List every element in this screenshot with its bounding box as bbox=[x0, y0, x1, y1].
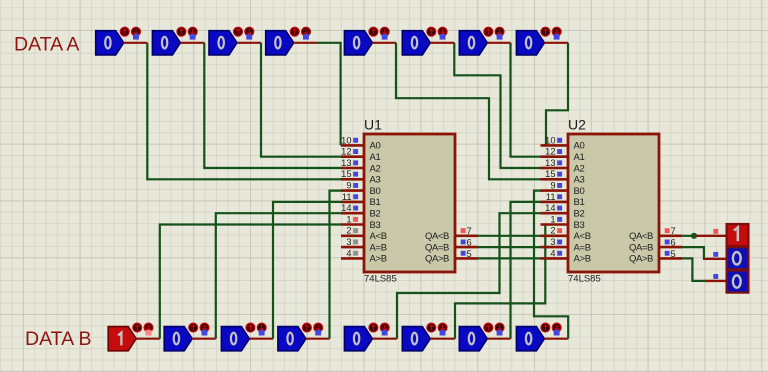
svg-text:13: 13 bbox=[341, 158, 351, 168]
svg-text:7: 7 bbox=[671, 226, 676, 236]
svg-text:11: 11 bbox=[546, 192, 556, 202]
wire DATA-B8 to U2 B0 bbox=[534, 191, 568, 339]
U1 pin 1 (B3) bbox=[341, 223, 364, 226]
svg-text:5: 5 bbox=[467, 249, 472, 259]
svg-text:2: 2 bbox=[550, 226, 555, 236]
wire U2 QA=B to probe 2 bbox=[678, 247, 704, 259]
wire DATA-A2 to U1 A2 bbox=[204, 43, 341, 168]
logic input DATA B bit 4 bbox=[278, 323, 323, 351]
U2 pin 2 (A<B) bbox=[541, 235, 569, 238]
svg-text:5: 5 bbox=[671, 249, 676, 259]
U2 pin 6 (QA=B) bbox=[659, 246, 682, 249]
wire stub DATA B toggle 5 bbox=[372, 338, 397, 340]
output probe 3 (0) bbox=[705, 270, 748, 292]
U2 pin 7 (QA<B) bbox=[659, 235, 682, 238]
wire stub DATA A toggle 2 bbox=[180, 42, 204, 44]
svg-text:3: 3 bbox=[346, 237, 351, 247]
wire DATA-B5 to U2 B2 bbox=[397, 213, 544, 339]
svg-text:QA=B: QA=B bbox=[629, 242, 653, 253]
svg-text:B2: B2 bbox=[574, 209, 585, 220]
svg-text:B0: B0 bbox=[574, 186, 585, 197]
svg-text:6: 6 bbox=[671, 238, 676, 248]
U1 pin 13 (A2) bbox=[341, 167, 364, 170]
wire U1 QA>B to U2 A>B bbox=[478, 257, 543, 259]
svg-text:2: 2 bbox=[346, 226, 351, 236]
U1 pin 15 (A3) bbox=[341, 178, 364, 181]
svg-text:A1: A1 bbox=[574, 152, 585, 163]
svg-text:6: 6 bbox=[467, 238, 472, 248]
svg-text:A<B: A<B bbox=[370, 231, 387, 242]
svg-text:B0: B0 bbox=[370, 186, 381, 197]
logic input DATA B bit 8 bbox=[516, 323, 561, 351]
U1 pin 6 (QA=B) bbox=[455, 246, 478, 249]
wire stub DATA B toggle 2 bbox=[192, 338, 216, 340]
wire U2 QA<B to probe 1 bbox=[678, 235, 696, 237]
logic input DATA A bit 8 bbox=[516, 27, 561, 55]
logic input DATA B bit 3 bbox=[221, 323, 266, 351]
svg-text:9: 9 bbox=[346, 181, 351, 191]
logic input DATA A bit 4 bbox=[266, 27, 311, 55]
U1 pin 3 (A=B) bbox=[341, 246, 364, 249]
svg-text:A2: A2 bbox=[574, 163, 585, 174]
U2 pin 9 (B0) bbox=[541, 189, 569, 192]
wire stub DATA B toggle 8 bbox=[544, 338, 568, 340]
svg-text:U1: U1 bbox=[364, 116, 382, 132]
U2 pin 5 (QA>B) bbox=[659, 257, 682, 260]
svg-text:A0: A0 bbox=[574, 141, 585, 152]
svg-text:A1: A1 bbox=[370, 152, 381, 163]
wire U2 QA>B to probe 3 bbox=[678, 258, 706, 281]
logic input DATA B bit 2 bbox=[164, 323, 209, 351]
logic input DATA A bit 1 bbox=[96, 27, 141, 55]
U1 pin 5 (QA>B) bbox=[455, 257, 478, 260]
U1 pin 12 (A1) bbox=[341, 155, 364, 158]
wire stub DATA A toggle 8 bbox=[544, 42, 568, 44]
svg-text:B3: B3 bbox=[574, 220, 585, 231]
svg-text:U2: U2 bbox=[568, 116, 586, 132]
svg-text:A>B: A>B bbox=[370, 254, 387, 265]
wire DATA-A6 to U2 A2 bbox=[454, 43, 544, 168]
logic input DATA A bit 7 bbox=[459, 27, 504, 55]
wire stub DATA A toggle 3 bbox=[237, 42, 261, 44]
svg-text:B3: B3 bbox=[370, 220, 381, 231]
U2 pin 3 (A=B) bbox=[541, 246, 569, 249]
svg-text:B1: B1 bbox=[370, 197, 381, 208]
svg-text:A3: A3 bbox=[574, 175, 585, 186]
svg-text:DATA B: DATA B bbox=[25, 328, 91, 350]
wire DATA-B7 to U2 B1 bbox=[511, 202, 545, 339]
wire DATA-B6 to U2 B3 bbox=[455, 225, 545, 339]
svg-text:9: 9 bbox=[550, 181, 555, 191]
svg-text:10: 10 bbox=[545, 135, 555, 145]
svg-text:QA>B: QA>B bbox=[629, 254, 653, 265]
svg-text:10: 10 bbox=[341, 135, 351, 145]
svg-text:DATA A: DATA A bbox=[14, 34, 79, 56]
wire DATA-B4 to U1 B0 bbox=[330, 191, 342, 339]
wire U1 QA=B to U2 A=B bbox=[478, 246, 543, 248]
svg-text:A0: A0 bbox=[370, 141, 381, 152]
svg-text:A2: A2 bbox=[370, 163, 381, 174]
logic input DATA A bit 5 bbox=[344, 27, 389, 55]
svg-text:12: 12 bbox=[341, 147, 351, 157]
U1 pin 11 (B1) bbox=[341, 201, 364, 204]
svg-text:15: 15 bbox=[341, 169, 351, 179]
U2 pin 15 (A3) bbox=[541, 178, 569, 181]
op-amp U1: 74LS85 4-bit magnitude comparator bbox=[341, 116, 478, 284]
U2 pin 4 (A>B) bbox=[541, 257, 569, 260]
U1 pin 2 (A<B) bbox=[341, 235, 364, 238]
svg-text:QA<B: QA<B bbox=[629, 231, 653, 242]
U2 pin 13 (A2) bbox=[541, 167, 569, 170]
svg-text:A>B: A>B bbox=[574, 254, 591, 265]
wire stub DATA A toggle 4 bbox=[294, 42, 317, 44]
svg-text:A<B: A<B bbox=[574, 231, 591, 242]
logic input DATA A bit 3 bbox=[209, 27, 254, 55]
wire DATA-A1 to U1 A3 bbox=[147, 43, 341, 180]
wire stub DATA A toggle 6 bbox=[430, 42, 454, 44]
svg-text:14: 14 bbox=[545, 203, 555, 213]
svg-text:1: 1 bbox=[346, 214, 351, 224]
U2 pin 1 (B3) bbox=[541, 223, 569, 226]
logic input DATA B bit 7 bbox=[459, 323, 504, 351]
op-amp U2: 74LS85 4-bit magnitude comparator bbox=[541, 116, 683, 284]
svg-text:QA=B: QA=B bbox=[425, 242, 449, 253]
wire DATA-A4 to U1 A0 bbox=[317, 43, 341, 146]
svg-text:13: 13 bbox=[545, 158, 555, 168]
output probe 2 (0) bbox=[703, 247, 748, 269]
logic input DATA B bit 6 bbox=[402, 323, 447, 351]
svg-text:1: 1 bbox=[550, 214, 555, 224]
U1 pin 14 (B2) bbox=[341, 212, 364, 215]
output probe 1 (1) bbox=[696, 224, 748, 246]
svg-text:74LS85: 74LS85 bbox=[568, 274, 601, 285]
U2 pin 10 (A0) bbox=[541, 144, 569, 147]
svg-text:15: 15 bbox=[545, 169, 555, 179]
wire U1 QA<B to U2 A<B bbox=[478, 235, 543, 237]
wire DATA-A8 to U2 A0 bbox=[544, 43, 568, 146]
U2 pin 11 (B1) bbox=[541, 201, 569, 204]
svg-text:B1: B1 bbox=[574, 197, 585, 208]
svg-text:3: 3 bbox=[550, 237, 555, 247]
U1 pin 7 (QA<B) bbox=[455, 235, 478, 238]
U2 pin 14 (B2) bbox=[541, 212, 569, 215]
svg-text:A3: A3 bbox=[370, 175, 381, 186]
junction node on QA<B wire bbox=[691, 233, 697, 239]
svg-text:12: 12 bbox=[545, 147, 555, 157]
svg-text:11: 11 bbox=[342, 192, 352, 202]
svg-text:14: 14 bbox=[341, 203, 351, 213]
U1 pin 9 (B0) bbox=[341, 189, 364, 192]
logic input DATA A bit 6 bbox=[402, 27, 447, 55]
wire DATA-B1 to U1 B3 bbox=[160, 225, 341, 339]
wire DATA-B2 to U1 B2 bbox=[216, 213, 341, 339]
svg-text:QA<B: QA<B bbox=[425, 231, 449, 242]
wire stub DATA B toggle 1 bbox=[136, 338, 160, 340]
svg-text:A=B: A=B bbox=[370, 242, 387, 253]
U1 pin 4 (A>B) bbox=[341, 257, 364, 260]
wire stub DATA A toggle 1 bbox=[124, 42, 148, 44]
wire stub DATA A toggle 7 bbox=[487, 42, 510, 44]
svg-text:A=B: A=B bbox=[574, 242, 591, 253]
wire stub DATA A toggle 5 bbox=[372, 42, 396, 44]
wire DATA-A3 to U1 A1 bbox=[261, 43, 341, 157]
wire DATA-A5 to U2 A3 bbox=[396, 43, 544, 180]
wire stub DATA B toggle 7 bbox=[487, 338, 510, 340]
wire stub DATA B toggle 4 bbox=[306, 338, 330, 340]
U2 pin 12 (A1) bbox=[541, 155, 569, 158]
logic input DATA A bit 2 bbox=[152, 27, 197, 55]
svg-text:7: 7 bbox=[467, 226, 472, 236]
svg-text:4: 4 bbox=[550, 248, 555, 258]
svg-text:QA>B: QA>B bbox=[425, 254, 449, 265]
logic input DATA B bit 1 bbox=[108, 323, 153, 351]
wire DATA-A7 to U2 A1 bbox=[511, 43, 545, 157]
svg-text:B2: B2 bbox=[370, 209, 381, 220]
svg-text:4: 4 bbox=[346, 248, 351, 258]
logic input DATA B bit 5 bbox=[344, 323, 389, 351]
svg-text:74LS85: 74LS85 bbox=[364, 274, 397, 285]
U1 pin 10 (A0) bbox=[341, 144, 364, 147]
wire stub DATA B toggle 6 bbox=[430, 338, 455, 340]
wire stub DATA B toggle 3 bbox=[249, 338, 273, 340]
wire DATA-B3 to U1 B1 bbox=[273, 202, 341, 339]
